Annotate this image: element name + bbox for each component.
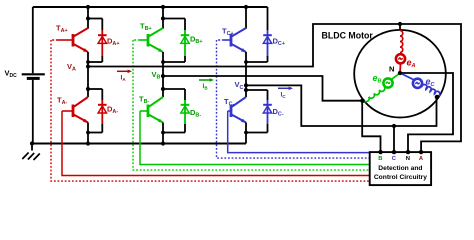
wire phase B output VB to motor (163, 76, 362, 101)
wire N to eB (392, 73, 400, 79)
diode DA- (98, 89, 107, 133)
wire TA+ gate drive dotted (51, 40, 371, 181)
node junction bottom rail phase B (161, 141, 165, 145)
pin B (378, 150, 382, 162)
svg-text:B: B (378, 156, 382, 162)
node VA junction (86, 64, 90, 68)
label eB (373, 73, 382, 85)
battery VDC (22, 7, 45, 144)
label N (389, 65, 394, 74)
back-EMF source eB (383, 78, 392, 87)
node junction DC- stub bottom (244, 131, 248, 135)
node junction DC+ stub bottom (244, 60, 248, 64)
control circuitry box (370, 152, 431, 185)
node motor terminal C (435, 95, 440, 100)
wire TC+ gate drive dotted (217, 40, 371, 158)
node junction phase C sense tap (392, 124, 396, 128)
diode DC+ (263, 7, 272, 62)
wire top DC bus rail (33, 6, 268, 8)
label Detection and Control Circuitry (374, 165, 427, 181)
node junction bottom rail phase A (86, 141, 90, 145)
wire B-leg collector drop (162, 7, 164, 29)
label VB (152, 70, 161, 81)
svg-text:BLDC Motor: BLDC Motor (322, 30, 374, 40)
label eC (426, 76, 436, 88)
label DA- (107, 105, 118, 116)
wire TA+ base lead (51, 39, 74, 41)
label TA- (57, 96, 67, 107)
wire DA+ top stub (88, 18, 102, 20)
ground (22, 141, 40, 160)
node junction top rail phase B (161, 5, 165, 9)
wire phase C sense to control box (393, 126, 395, 152)
wire A-leg VA to lower (87, 67, 89, 98)
node junction DA+ stub (86, 16, 90, 20)
wire C-leg emitter to rail (245, 123, 247, 144)
pin N (406, 150, 410, 162)
wire DB- top stub (163, 88, 185, 90)
wire A-leg collector drop (87, 7, 89, 29)
wire TB- base lead (140, 110, 149, 112)
transistor TC+ (upper C IGBT) (231, 28, 246, 52)
wire DC- bottom stub (246, 132, 268, 134)
label BLDC Motor (322, 30, 374, 40)
node motor neutral N (398, 71, 402, 75)
node junction DA+ stub bottom (86, 60, 90, 64)
back-EMF source eC (413, 79, 422, 88)
node junction top rail phase A (86, 5, 90, 9)
wire TC+ base lead (217, 39, 232, 41)
wire eA to N (399, 64, 402, 73)
wire DB- bottom stub (163, 132, 185, 134)
diode DC- (263, 90, 272, 133)
wire TC- gate drive (228, 111, 371, 153)
label IA current arrow (117, 70, 132, 83)
node junction DA- stub (86, 87, 90, 91)
wire TB+ base lead (133, 39, 149, 41)
wire TA- base lead (62, 110, 74, 112)
pin C (392, 150, 397, 162)
label eA (407, 58, 416, 70)
label TC- (224, 97, 234, 108)
diode DB+ (181, 19, 190, 63)
winding C coil (422, 85, 440, 97)
label IC current arrow (278, 87, 293, 99)
node junction DB+ stub (161, 16, 165, 20)
label TB+ (140, 22, 152, 33)
winding A coil (400, 31, 403, 53)
svg-text:N: N (389, 65, 394, 74)
wire DA+ bottom stub (88, 61, 102, 63)
label VC (235, 80, 244, 91)
diode DB- (181, 89, 190, 133)
transistor TA+ (upper A IGBT) (73, 28, 88, 52)
wire C-leg emitter to VC (245, 52, 247, 85)
node junction DB- stub (161, 87, 165, 91)
transistor TB+ (upper B IGBT) (148, 28, 163, 52)
wire bottom DC bus rail (32, 143, 246, 145)
node junction DA- stub bottom (86, 131, 90, 135)
BLDC motor stator circle (354, 30, 446, 118)
wire TA- gate drive (62, 111, 371, 176)
diode DA+ (98, 19, 107, 63)
svg-text:Control Circuitry: Control Circuitry (374, 174, 427, 181)
wire DC+ bottom stub (246, 61, 268, 63)
wire phase C output VC to motor (246, 85, 437, 126)
label DB+ (190, 35, 202, 46)
wire DB+ top stub (163, 18, 185, 20)
label IB current arrow (199, 78, 214, 90)
transistor TB- (lower B IGBT) (148, 97, 163, 123)
svg-text:Detection and: Detection and (378, 165, 422, 172)
label DA+ (107, 37, 119, 48)
wire A-leg emitter to rail (87, 123, 89, 144)
wire neutral N to control box (400, 73, 453, 152)
label TA+ (56, 24, 68, 35)
transistor TA- (lower A IGBT) (73, 97, 88, 123)
wire B-leg VB to lower (162, 76, 164, 97)
node VC junction (244, 83, 248, 87)
label VA (67, 62, 76, 73)
pin A (419, 150, 424, 162)
label VDC (5, 69, 18, 80)
node junction DB- stub bottom (161, 131, 165, 135)
node junction top rail phase C (244, 5, 248, 9)
node junction motor terminal A tap (398, 22, 402, 26)
wire DC- top stub (246, 89, 268, 91)
wire C-leg collector drop (245, 7, 247, 29)
wire DA- bottom stub (88, 132, 102, 134)
svg-text:N: N (406, 156, 410, 162)
label TC+ (222, 27, 234, 38)
wire A-leg emitter to VA (87, 52, 89, 67)
node junction DC- stub (244, 88, 248, 92)
node junction DB+ stub bottom (161, 60, 165, 64)
wire B-leg emitter to rail (162, 123, 164, 144)
wire TC- base lead (228, 110, 232, 112)
label DB- (190, 108, 201, 119)
wire phase B sense to control box (362, 101, 380, 152)
wire DA- top stub (88, 88, 102, 90)
transistor TC- (lower C IGBT) (231, 97, 246, 123)
wire TB+ gate drive dotted (133, 40, 371, 170)
label TB- (139, 95, 149, 106)
wire C-leg VC to lower (245, 85, 247, 97)
node VB junction (161, 74, 165, 78)
label DC- (273, 107, 284, 118)
back-EMF source eA (396, 54, 405, 63)
winding B coil (364, 87, 385, 102)
node motor terminal B (360, 98, 365, 103)
wire B-leg emitter to VB (162, 52, 164, 76)
wire phase A output VA to motor (88, 24, 461, 152)
wire TB- gate drive (140, 111, 371, 165)
wire DB+ bottom stub (163, 61, 185, 63)
wire motor terminal A stub (399, 24, 401, 30)
label DC+ (273, 37, 285, 48)
wire N to eC (400, 73, 414, 80)
